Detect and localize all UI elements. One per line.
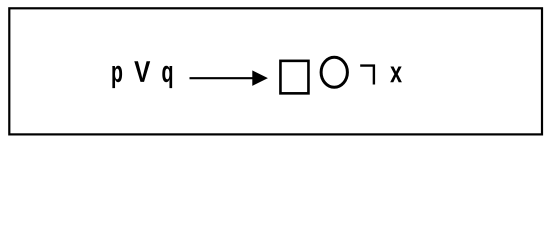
text x	[390, 66, 402, 82]
text q	[162, 66, 172, 88]
circle	[321, 57, 347, 87]
text p	[112, 66, 122, 88]
not symbol	[360, 66, 374, 85]
arrow shaft	[190, 77, 254, 79]
text V (logical OR)	[134, 61, 150, 82]
square box	[280, 61, 308, 94]
arrow head	[252, 70, 268, 86]
